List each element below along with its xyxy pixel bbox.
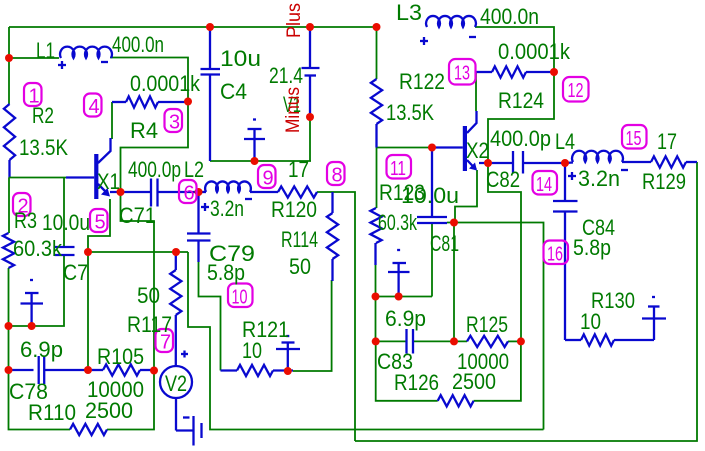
label R2 — [32, 103, 54, 128]
svg-text:10: 10 — [242, 338, 262, 363]
node 12 bubble — [563, 77, 589, 102]
wire R123 bottom lead down to ground row node — [374, 243, 376, 265]
label L1 — [36, 38, 55, 63]
junction dot left rail L1 — [5, 54, 13, 62]
label C4 — [220, 79, 247, 104]
label R129 — [642, 169, 686, 194]
transistor Q X2 base bar — [463, 126, 467, 171]
junction dot R105 right V2 riser — [150, 367, 158, 375]
wire left rail from R2 to X1 base junction — [8, 160, 10, 178]
wire from node6 C79 stem lower staircase to R121 — [199, 262, 221, 371]
capacitor C84 — [553, 163, 578, 340]
wire R122 top lead from supply rail — [376, 27, 378, 79]
wire X2 emitter path down and left to C81 bottom node — [454, 170, 477, 223]
node 9 bubble — [258, 165, 276, 190]
svg-text:X2: X2 — [466, 138, 489, 163]
svg-text:17: 17 — [288, 157, 309, 182]
label V1 — [283, 92, 301, 117]
wire R126 loop below R125 — [376, 341, 438, 400]
svg-text:Minus: Minus — [283, 87, 304, 133]
label R124 — [498, 88, 544, 113]
wire from L1 coil right end down to R4 right node 3 — [110, 58, 188, 102]
resistor R121 — [221, 365, 294, 376]
ground right of R130 — [642, 297, 666, 340]
resistor R126 — [438, 395, 474, 406]
value 60.3k of R3 — [13, 236, 63, 261]
svg-text:C81: C81 — [430, 231, 459, 256]
svg-text:11: 11 — [390, 158, 406, 180]
svg-text:21.4: 21.4 — [269, 63, 303, 88]
value 17 of R120 — [288, 157, 309, 182]
value 50 of R117 — [137, 283, 160, 308]
svg-text:L1: L1 — [36, 38, 55, 63]
resistor R4 — [112, 96, 188, 107]
svg-text:2500: 2500 — [452, 369, 496, 394]
value 0.0001k of R124 — [498, 39, 571, 64]
svg-text:60.3k: 60.3k — [13, 236, 63, 261]
label R3 — [14, 208, 37, 233]
wire node5 row from emitter path to feedback corner — [88, 251, 188, 253]
resistor R125 — [467, 336, 508, 347]
wire X2 base from R122 R123 column to transistor — [377, 147, 433, 149]
label R105 — [97, 344, 144, 369]
svg-text:R105: R105 — [97, 344, 144, 369]
wire from emitter row node down to C83 R125 row — [453, 223, 455, 342]
value 2500 of R126 — [452, 369, 496, 394]
value 5.8p of C84 — [573, 235, 611, 260]
label R125 — [466, 312, 508, 337]
value 5.8p of C79 — [207, 260, 245, 285]
wire emitter row from C81 to bottom riser x544 — [447, 223, 544, 430]
label C83 — [377, 349, 413, 374]
svg-text:5.8p: 5.8p — [207, 260, 245, 285]
label C79 — [209, 241, 255, 266]
node 8 bubble — [327, 162, 345, 187]
wire left rail from C78 down to bottom left corner — [9, 370, 71, 430]
wire from R120 right end down to bottom rail B — [317, 192, 355, 441]
junction dot C7 bottom rail — [5, 322, 13, 330]
label R110 — [28, 400, 76, 425]
wire ground row from R123 node to C81 stem — [376, 296, 433, 298]
svg-text:C71: C71 — [119, 203, 156, 228]
value 10u of C4 — [220, 46, 261, 71]
junction dot emitter row C81 — [450, 219, 458, 227]
node 14 bubble — [533, 171, 558, 196]
svg-text:R124: R124 — [498, 88, 544, 113]
label C84 — [582, 215, 615, 240]
svg-text:10: 10 — [580, 309, 601, 334]
svg-text:6: 6 — [184, 183, 195, 205]
resistor R130 — [565, 334, 654, 345]
label C82 — [486, 167, 520, 192]
wire C81 bottom stem down to ground row — [431, 223, 433, 297]
wire left rail top segment — [8, 27, 10, 58]
node 11 bubble — [387, 155, 412, 180]
transistor X2 emitter lead with arrow — [467, 160, 477, 171]
value 2500 of R110 — [85, 398, 133, 423]
junction dot R122 top — [373, 23, 381, 31]
svg-text:5: 5 — [95, 212, 106, 234]
label C7 — [63, 260, 88, 285]
label X2 — [466, 138, 489, 163]
capacitor C4 — [201, 27, 221, 161]
label L4 — [555, 129, 575, 154]
polarity marks L2 — [201, 199, 252, 211]
polarity marks L4 — [568, 170, 628, 180]
svg-text:10.0u: 10.0u — [401, 183, 459, 208]
wire left rail from R3 down to C7 bottom node — [8, 268, 10, 326]
junction dot C78 left — [5, 366, 13, 374]
value 10.0u of C7 — [42, 210, 90, 235]
node 15 bubble — [622, 125, 647, 150]
node 3 bubble — [165, 109, 183, 134]
wire C4 branch bottom row to V1 — [210, 160, 311, 162]
svg-text:3.2n: 3.2n — [210, 196, 244, 221]
value 400.0p of C82 — [490, 126, 551, 151]
wire left rail from L1 tap down to R2 — [8, 58, 10, 104]
svg-text:6.9p: 6.9p — [20, 337, 63, 362]
wire L1 branch from left rail to coil — [9, 57, 59, 59]
junction dot C83 row middle — [450, 337, 458, 345]
svg-text:L3: L3 — [396, 0, 422, 25]
wire bottom left from R110 to riser up to V2 plus node — [107, 371, 154, 430]
value 400.0n of L3 — [480, 4, 539, 29]
wire top supply rail from left rail to L3 — [9, 26, 376, 28]
wire from R123 node down to C83 R125 row — [375, 297, 377, 342]
wire X1 emitter path down left to node at y252 — [88, 199, 110, 252]
junction dot C83 row left — [372, 337, 380, 345]
value 3.2n of L4 — [578, 166, 620, 191]
value 0.0001k of R4 — [130, 71, 201, 96]
svg-text:0.0001k: 0.0001k — [498, 39, 571, 64]
svg-text:400.0n: 400.0n — [112, 32, 164, 57]
svg-text:6.9p: 6.9p — [385, 306, 426, 331]
value 13.5K of R122 — [386, 100, 434, 125]
wire X2 emitter to C82 — [479, 162, 513, 164]
svg-text:X1: X1 — [97, 169, 120, 194]
transistor X1 collector lead — [98, 138, 111, 163]
value 3.2n of L2 — [210, 196, 244, 221]
svg-text:400.0p: 400.0p — [490, 126, 551, 151]
transistor X2 collector lead — [467, 111, 477, 133]
svg-text:R114: R114 — [281, 227, 318, 252]
transistor X1 emitter lead with arrow — [98, 184, 110, 197]
svg-text:R126: R126 — [394, 370, 439, 395]
svg-text:4: 4 — [89, 96, 100, 118]
resistor R105 — [88, 364, 154, 375]
wire bottom rail B to far right riser — [355, 162, 697, 441]
node 7 bubble — [156, 329, 174, 354]
resistor R120 — [278, 186, 317, 197]
svg-text:V2: V2 — [165, 371, 187, 396]
svg-text:13.5K: 13.5K — [19, 135, 68, 160]
node 13 bubble — [449, 59, 476, 85]
wire R123 top lead from base junction — [376, 148, 378, 209]
svg-text:10.0u: 10.0u — [42, 210, 90, 235]
label R4 — [130, 118, 158, 143]
junction dot node 12 R124 right — [550, 68, 558, 76]
wire R122 bottom lead to base junction — [375, 124, 377, 148]
value 17 of R129 — [657, 129, 677, 154]
wire X2 base blue stub — [432, 146, 463, 148]
junction dot ground stem bottom left — [28, 322, 36, 330]
node 16 bubble — [544, 241, 569, 266]
junction dot V1 top — [306, 23, 314, 31]
label Plus supply node — [284, 3, 305, 38]
wire C83 R125 row — [376, 340, 407, 342]
wire feedback from node 3 down and left to X1 emitter dot — [121, 102, 189, 192]
svg-text:R3: R3 — [14, 208, 37, 233]
label R117 — [127, 312, 172, 337]
junction dot C4 top — [206, 23, 214, 31]
svg-text:0.0001k: 0.0001k — [130, 71, 201, 96]
junction dot node 6 — [195, 188, 203, 196]
svg-text:3.2n: 3.2n — [578, 166, 620, 191]
junction dot node5 row left — [84, 248, 92, 256]
label C71 — [119, 203, 156, 228]
source V1 battery — [302, 28, 320, 117]
wire feedback staircase from node 12 to X2 emitter node — [488, 72, 554, 163]
svg-text:R117: R117 — [127, 312, 172, 337]
label L2 — [184, 157, 204, 182]
value 10000 of R105 — [87, 377, 144, 402]
junction dot node 3 R4 right — [184, 98, 192, 106]
junction dot V1 minus — [306, 113, 314, 121]
svg-text:13: 13 — [454, 63, 470, 85]
ground for V2 — [176, 416, 202, 446]
svg-text:C7: C7 — [63, 260, 88, 285]
node 1 bubble — [24, 83, 42, 108]
node 6 bubble — [179, 180, 197, 205]
svg-text:C4: C4 — [220, 79, 247, 104]
wire riser x88 from y252 node down to C78 R105 node — [87, 252, 89, 370]
svg-text:50: 50 — [289, 254, 311, 279]
label C78 — [9, 379, 48, 404]
resistor R122 — [371, 79, 382, 124]
svg-text:R4: R4 — [130, 118, 158, 143]
wire from emitter dot down then right to V2 riser — [121, 192, 155, 371]
resistor R123 — [370, 208, 381, 243]
junction dot C78 R105 — [84, 366, 92, 374]
wire X1 emitter to C71 node — [110, 191, 151, 193]
svg-text:17: 17 — [657, 129, 677, 154]
capacitor C71 — [151, 179, 199, 207]
wire from L3 right end down to R124 right node 12 — [475, 27, 554, 72]
svg-text:R122: R122 — [399, 69, 445, 94]
wire C82 left staircase down to R125 right node — [488, 163, 521, 341]
capacitor C83 — [407, 329, 414, 354]
svg-text:5.8p: 5.8p — [573, 235, 611, 260]
inductor L4 — [565, 151, 651, 163]
capacitor C82 — [513, 151, 565, 174]
label R122 — [399, 69, 445, 94]
value 6.9p of C78 — [20, 337, 63, 362]
resistor R110 — [70, 424, 107, 435]
inductor L1 — [60, 47, 112, 58]
junction dot C82 right L4 C84 — [561, 159, 569, 167]
junction dot R117 top — [172, 248, 180, 256]
ground below R3 — [21, 280, 44, 326]
svg-text:50: 50 — [137, 283, 160, 308]
node 2 bubble — [13, 193, 31, 218]
svg-text:14: 14 — [536, 174, 552, 196]
resistor R3 — [3, 233, 14, 268]
polarity marks L1 — [58, 61, 108, 69]
resistor R114 — [327, 192, 338, 281]
svg-text:L2: L2 — [184, 157, 204, 182]
value 10 of R121 — [242, 338, 262, 363]
junction dot X2 base C81 tap — [428, 144, 436, 152]
wire left rail from base junction down to R3 — [8, 178, 10, 234]
svg-text:R120: R120 — [271, 197, 317, 222]
label R123 — [379, 180, 425, 205]
wire left rail from C7 bottom node to C78 — [8, 326, 10, 370]
svg-text:16: 16 — [547, 244, 563, 266]
svg-text:10u: 10u — [220, 46, 261, 71]
wire X1 base from left rail to transistor — [9, 177, 94, 179]
label V2 — [165, 371, 187, 396]
ground above R121 right node — [276, 336, 300, 371]
source V2 — [160, 351, 192, 431]
label R114 — [281, 227, 318, 252]
svg-text:R2: R2 — [32, 103, 54, 128]
value 21.4 of V1 — [269, 63, 303, 88]
label Minus supply node — [283, 87, 304, 133]
value 13.5K of R2 — [19, 135, 68, 160]
value 6.9p of C83 — [385, 306, 426, 331]
svg-text:R125: R125 — [466, 312, 508, 337]
node 4 bubble — [84, 94, 102, 119]
svg-text:Plus: Plus — [284, 3, 305, 38]
svg-text:12: 12 — [568, 80, 584, 102]
wire from R121 right node to R114 bottom — [293, 280, 332, 371]
junction dot R123 bottom ground row — [372, 293, 380, 301]
wire R124 left lead down to X2 collector — [475, 72, 477, 111]
wire staircase from y252 row down to bottom rail A — [188, 252, 544, 430]
ground for C4 V1 block — [244, 120, 265, 162]
label L3 — [396, 0, 422, 25]
capacitor C79 — [187, 192, 211, 262]
node 5 bubble — [90, 209, 108, 234]
svg-text:400.0n: 400.0n — [480, 4, 539, 29]
svg-text:10: 10 — [232, 287, 248, 309]
svg-text:15: 15 — [626, 128, 642, 150]
resistor R2 — [4, 104, 15, 160]
value 10000 of R125 — [457, 349, 509, 374]
inductor L3 — [426, 16, 476, 27]
value 60.3k of R123 — [378, 210, 418, 235]
wire V1 minus terminal down to bottom row — [309, 117, 311, 161]
svg-text:L4: L4 — [555, 129, 575, 154]
inductor L2 — [199, 181, 279, 192]
node 10 bubble — [228, 284, 253, 309]
wire C7 tap from base wire down to plates — [63, 178, 65, 248]
transistor Q X1 base bar — [94, 154, 98, 199]
svg-text:60.3k: 60.3k — [378, 210, 418, 235]
wire R4 left lead down to X1 collector — [111, 102, 113, 139]
junction dot X2 emitter C82 — [484, 159, 492, 167]
label R120 — [271, 197, 317, 222]
label C81 — [430, 231, 459, 256]
junction dot C83 row right — [517, 337, 525, 345]
value 400.0n of L1 — [112, 32, 164, 57]
svg-text:9: 9 — [263, 168, 274, 190]
svg-text:C82: C82 — [486, 167, 520, 192]
value 10.0u of C81 — [401, 183, 459, 208]
polarity marks L3 — [420, 37, 476, 45]
label R130 — [591, 288, 635, 313]
value 10 of R130 — [580, 309, 601, 334]
junction dot R121 right — [284, 367, 292, 375]
capacitor C78 — [9, 356, 89, 384]
svg-text:8: 8 — [332, 165, 343, 187]
value 400.0p of C71 — [128, 157, 181, 182]
label X1 — [97, 169, 120, 194]
wire C7 bottom plate down to left rail bottom wire — [9, 255, 65, 326]
capacitor C81 — [417, 148, 447, 224]
svg-text:400.0p: 400.0p — [128, 157, 181, 182]
svg-text:R129: R129 — [642, 169, 686, 194]
label R126 — [394, 370, 439, 395]
junction dot X1 emitter — [117, 188, 125, 196]
resistor R129 — [651, 156, 697, 167]
ground on stage2 emitter ground row — [388, 250, 410, 297]
resistor R124 — [476, 66, 554, 77]
svg-text:13.5K: 13.5K — [386, 100, 434, 125]
label R121 — [242, 317, 289, 342]
svg-text:2500: 2500 — [85, 398, 133, 423]
junction dot ground row stage2 — [395, 293, 403, 301]
resistor R117 — [170, 252, 181, 366]
capacitor C7 — [55, 247, 75, 255]
svg-text:R110: R110 — [28, 400, 76, 425]
svg-text:3: 3 — [169, 112, 180, 134]
junction dot supply ground tap — [251, 157, 259, 165]
value 50 of R114 — [289, 254, 311, 279]
